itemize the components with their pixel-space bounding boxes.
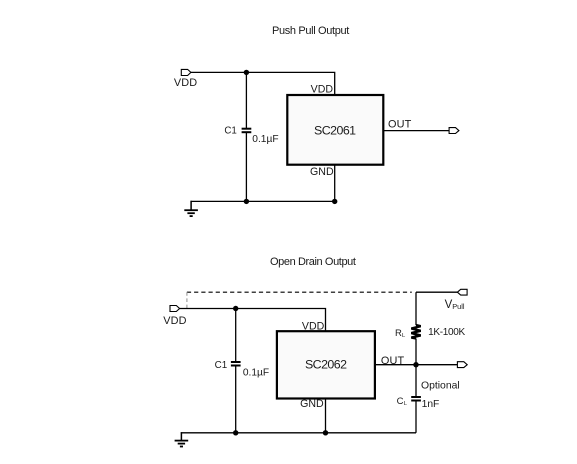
terminal VDD (bottom circuit) (170, 306, 180, 312)
svg-text:0.1µF: 0.1µF (243, 368, 269, 379)
svg-text:Open Drain Output: Open Drain Output (270, 256, 356, 268)
junction dot (GND pin / bus, bottom) (323, 430, 328, 435)
ground (bottom circuit) (175, 432, 189, 446)
junction dot (VDD rail / C1 bottom) (233, 306, 238, 311)
svg-text:VDD: VDD (311, 84, 334, 96)
op-amp U1 SC2061 box (287, 95, 383, 165)
svg-text:VDD: VDD (174, 77, 197, 89)
wire dashed pull-up rail (187, 291, 412, 293)
svg-text:Push Pull Output: Push Pull Output (272, 25, 349, 37)
svg-text:C1: C1 (215, 360, 228, 371)
wire VDD terminal to VDD pin (191, 72, 335, 95)
svg-text:1K-100K: 1K-100K (428, 327, 465, 338)
wire ground bus (bottom circuit) (181, 432, 416, 434)
junction dot (OUT / RL / CL) (413, 362, 418, 367)
wire to VPull terminal (416, 291, 457, 293)
junction dot (VDD rail / C1) (244, 70, 249, 75)
wire resistor to OUT junction (415, 339, 417, 365)
ground (top circuit) (184, 201, 198, 216)
svg-text:SC2062: SC2062 (305, 358, 347, 372)
wire ground bus (top circuit) (191, 200, 335, 202)
svg-text:OUT: OUT (388, 119, 412, 131)
svg-text:C1: C1 (224, 125, 237, 136)
wire OUT junction to CL (415, 365, 417, 397)
svg-text:VDD: VDD (163, 315, 186, 327)
wire CL to ground bus (415, 401, 417, 433)
junction dot (GND pin / bus) (332, 199, 337, 204)
wire GND pin to bus (bottom) (325, 399, 327, 433)
capacitor C1 (bottom circuit) (231, 361, 241, 363)
svg-text:R: R (395, 328, 402, 339)
svg-text:Optional: Optional (421, 381, 460, 392)
svg-text:GND: GND (300, 398, 324, 410)
wire OUT (SC2061) (383, 130, 449, 132)
wire C1 to ground bus (245, 132, 247, 201)
op-amp U2 SC2062 box (277, 331, 375, 398)
wire OUT (SC2062) (375, 364, 457, 366)
svg-text:VDD: VDD (302, 321, 325, 333)
junction dot (C1 bottom / bus) (233, 430, 238, 435)
terminal OUT (bottom circuit) (457, 362, 467, 368)
terminal OUT (top circuit) (449, 128, 459, 134)
capacitor CL (411, 396, 421, 398)
terminal VPull (457, 289, 467, 295)
svg-text:0.1µF: 0.1µF (252, 134, 278, 145)
wire C1 to ground bus (bottom) (235, 366, 237, 433)
terminal VDD (top circuit) (181, 69, 191, 75)
wire dashed stub to VDD (186, 292, 188, 308)
svg-text:SC2061: SC2061 (314, 124, 356, 138)
wire VPull rail down to resistor (415, 292, 417, 325)
svg-text:Pull: Pull (452, 302, 465, 311)
wire junction to C1 (245, 72, 247, 128)
svg-text:1nF: 1nF (422, 399, 440, 410)
wire GND pin to bus (334, 165, 336, 202)
capacitor C1 (top circuit) (242, 128, 252, 130)
wire VDD terminal to VDD pin (SC2062) (180, 309, 326, 332)
svg-text:C: C (397, 396, 404, 407)
resistor RL (411, 325, 420, 339)
wire junction to C1 (bottom) (235, 309, 237, 362)
svg-text:GND: GND (310, 166, 334, 178)
junction dot (C1 / bus) (244, 199, 249, 204)
